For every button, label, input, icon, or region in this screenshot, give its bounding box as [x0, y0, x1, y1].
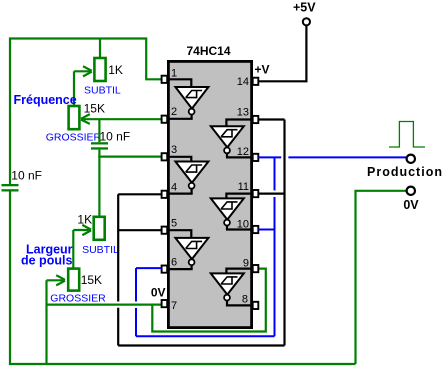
wire: R4 wiper down to ground run: [45, 280, 47, 364]
pin 4: [162, 191, 168, 198]
IC U1 74HC14 body: [168, 61, 251, 327]
U1D hysteresis glyph: [221, 130, 237, 137]
inverter U1A triangle: [175, 87, 208, 109]
pin 9: [253, 265, 259, 272]
pin 2: [162, 116, 168, 123]
pin 10: [253, 226, 259, 233]
svg-text:SUBTIL: SUBTIL: [84, 85, 121, 97]
svg-text:8: 8: [242, 294, 248, 306]
resistor R3 1K (SUBTIL largeur) body: [94, 217, 105, 240]
pin 13: [253, 116, 259, 123]
svg-text:10 nF: 10 nF: [100, 129, 131, 143]
resistor R2 15K (GROSSIER frequence) body: [69, 106, 80, 129]
wire: blue pin6 run: [136, 267, 162, 269]
wire: blue bottom run under IC: [136, 335, 275, 337]
wire: blue pin12 run to Production (gap hop at black vertical): [258, 156, 281, 158]
wire: pin11 input elbow: [226, 194, 252, 199]
capacitor C2 10nF: bottom plate: [91, 147, 108, 149]
svg-text:10 nF: 10 nF: [11, 169, 42, 183]
inverter U1C triangle: [175, 238, 208, 259]
svg-text:4: 4: [171, 181, 177, 193]
R1 wiper arrow: [74, 66, 92, 76]
svg-text:2: 2: [171, 106, 177, 118]
R2 wiper arrow (points left): [81, 114, 162, 124]
wire: pin1 input elbow: [162, 79, 192, 87]
wire: branch to pin 3: [98, 156, 161, 158]
capacitor C1 10nF left: top plate: [2, 184, 19, 186]
svg-text:6: 6: [171, 257, 177, 269]
wire: black vertical left of IC (hops green pin7 run): [117, 194, 119, 301]
terminal Production circle: [407, 155, 415, 163]
terminal +5V circle: [303, 18, 310, 25]
U1E hysteresis glyph: [221, 202, 237, 209]
wire: left rail below C1 down to ground run: [9, 191, 11, 364]
wire: bottom ground run: [9, 363, 356, 365]
wire: pin9 input elbow: [226, 269, 252, 274]
pin 6: [162, 266, 168, 273]
svg-text:+V: +V: [255, 63, 270, 77]
pulse waveform icon: [389, 122, 425, 148]
svg-text:15K: 15K: [84, 102, 105, 116]
inverter U1B triangle: [175, 162, 208, 183]
wire: black bottom run under IC: [118, 344, 284, 346]
svg-text:1K: 1K: [77, 212, 92, 226]
inverter U1B (pins 3-4): [162, 157, 209, 194]
svg-text:15K: 15K: [81, 273, 102, 287]
wire: pin10 output elbow: [227, 225, 253, 229]
svg-text:11: 11: [238, 181, 249, 193]
U1C hysteresis glyph: [186, 241, 202, 248]
inverter U1D triangle: [211, 126, 244, 147]
pin 14: [253, 78, 259, 85]
capacitor C1 10nF left: bottom plate: [2, 189, 19, 191]
svg-text:5: 5: [171, 218, 177, 230]
U1C output bubble: [189, 259, 195, 265]
svg-text:Production: Production: [367, 165, 443, 179]
wire: R1 wiper down to R2 top: [73, 71, 75, 106]
wire: pin12 output elbow: [227, 153, 253, 157]
wire: R3 wiper down to R4 top: [72, 230, 74, 269]
wire: pin3 input elbow: [162, 157, 192, 162]
wire: pin4 output elbow: [162, 188, 192, 193]
svg-text:13: 13: [237, 107, 249, 119]
resistor R4 15K (GROSSIER largeur) body: [68, 269, 79, 291]
pin 7: [162, 300, 168, 307]
inverter U1F triangle: [211, 273, 244, 294]
wire: ground run to pin 7: [47, 304, 162, 306]
inverter U1E (pins 11-10): [211, 194, 253, 230]
wire: pin13 input elbow: [226, 120, 252, 127]
pin 11: [253, 190, 259, 197]
wire: pin2 output elbow: [162, 114, 192, 119]
svg-text:Fréquence: Fréquence: [14, 93, 77, 107]
svg-text:10: 10: [237, 218, 249, 230]
wire: blue vertical branch (gap hop at black pin11 run): [274, 157, 276, 190]
pin 5: [162, 227, 168, 234]
inverter U1D (pins 13-12): [211, 120, 253, 158]
pin 8: [253, 302, 259, 309]
svg-text:SUBTIL: SUBTIL: [82, 244, 119, 256]
svg-text:7: 7: [171, 300, 177, 312]
wire: black pin5 run: [118, 229, 161, 231]
U1B hysteresis glyph: [186, 165, 202, 172]
U1D output bubble: [224, 148, 230, 154]
wire: black vertical right of IC: [283, 120, 285, 346]
svg-text:GROSSIER: GROSSIER: [46, 131, 102, 143]
wire: black pin4 run: [118, 193, 161, 195]
resistor R1 1K (SUBTIL frequence) body: [94, 58, 105, 81]
wire: top-left net (left rail up, top run, drop to pin 1): [10, 39, 162, 185]
U1F output bubble: [224, 295, 230, 301]
wire: +5V feed from terminal down to pin 14: [258, 26, 306, 82]
capacitor C2 10nF: top plate: [91, 142, 108, 144]
wire: blue vertical left (gap hop at green pin7 run): [135, 268, 137, 301]
inverter U1C (pins 5-6): [162, 230, 209, 269]
pin 12: [253, 154, 259, 161]
svg-text:1K: 1K: [108, 63, 123, 77]
wire: 0V terminal run: [356, 191, 407, 364]
wire: junction drop from wiper run to C2: [98, 119, 100, 142]
svg-text:9: 9: [243, 258, 249, 270]
wire: branch from top run down to R1 top: [99, 39, 101, 58]
op-amp style inverter U1A (pins 1-2): [162, 79, 209, 119]
U1A output bubble: [189, 109, 195, 115]
svg-text:74HC14: 74HC14: [187, 44, 231, 58]
terminal 0V circle: [407, 187, 415, 195]
svg-text:0V: 0V: [403, 198, 419, 212]
wire: blue pin10 run: [258, 229, 274, 231]
svg-text:0V: 0V: [151, 285, 166, 299]
wire: C2 bottom down to R3 top: [98, 150, 100, 217]
pin 3: [162, 153, 168, 160]
wire: black pin11 run: [258, 193, 284, 195]
svg-text:14: 14: [237, 76, 249, 88]
inverter U1F (pins 9-8): [211, 269, 253, 306]
svg-text:GROSSIER: GROSSIER: [50, 293, 106, 305]
svg-text:12: 12: [237, 146, 249, 158]
U1A hysteresis glyph: [186, 91, 202, 98]
U1E output bubble: [224, 220, 230, 226]
U1B output bubble: [189, 183, 195, 189]
R4 wiper arrow: [47, 275, 66, 285]
wire: pin8 output elbow: [227, 300, 253, 305]
U1F hysteresis glyph: [221, 277, 237, 284]
pin 1: [162, 76, 168, 83]
svg-text:+5V: +5V: [293, 1, 316, 15]
wire: pin6 output elbow: [162, 265, 192, 269]
wire: black net pin13 run to right vertical: [258, 118, 284, 120]
inverter U1E triangle: [211, 198, 244, 219]
svg-text:1: 1: [171, 67, 177, 79]
wire: pin5 input elbow: [162, 230, 192, 238]
R3 wiper arrow: [73, 225, 91, 235]
svg-text:de pouls: de pouls: [21, 254, 72, 268]
svg-text:3: 3: [171, 144, 177, 156]
wire: green wrap from pin7 run down and around to pin 9: [152, 269, 265, 332]
